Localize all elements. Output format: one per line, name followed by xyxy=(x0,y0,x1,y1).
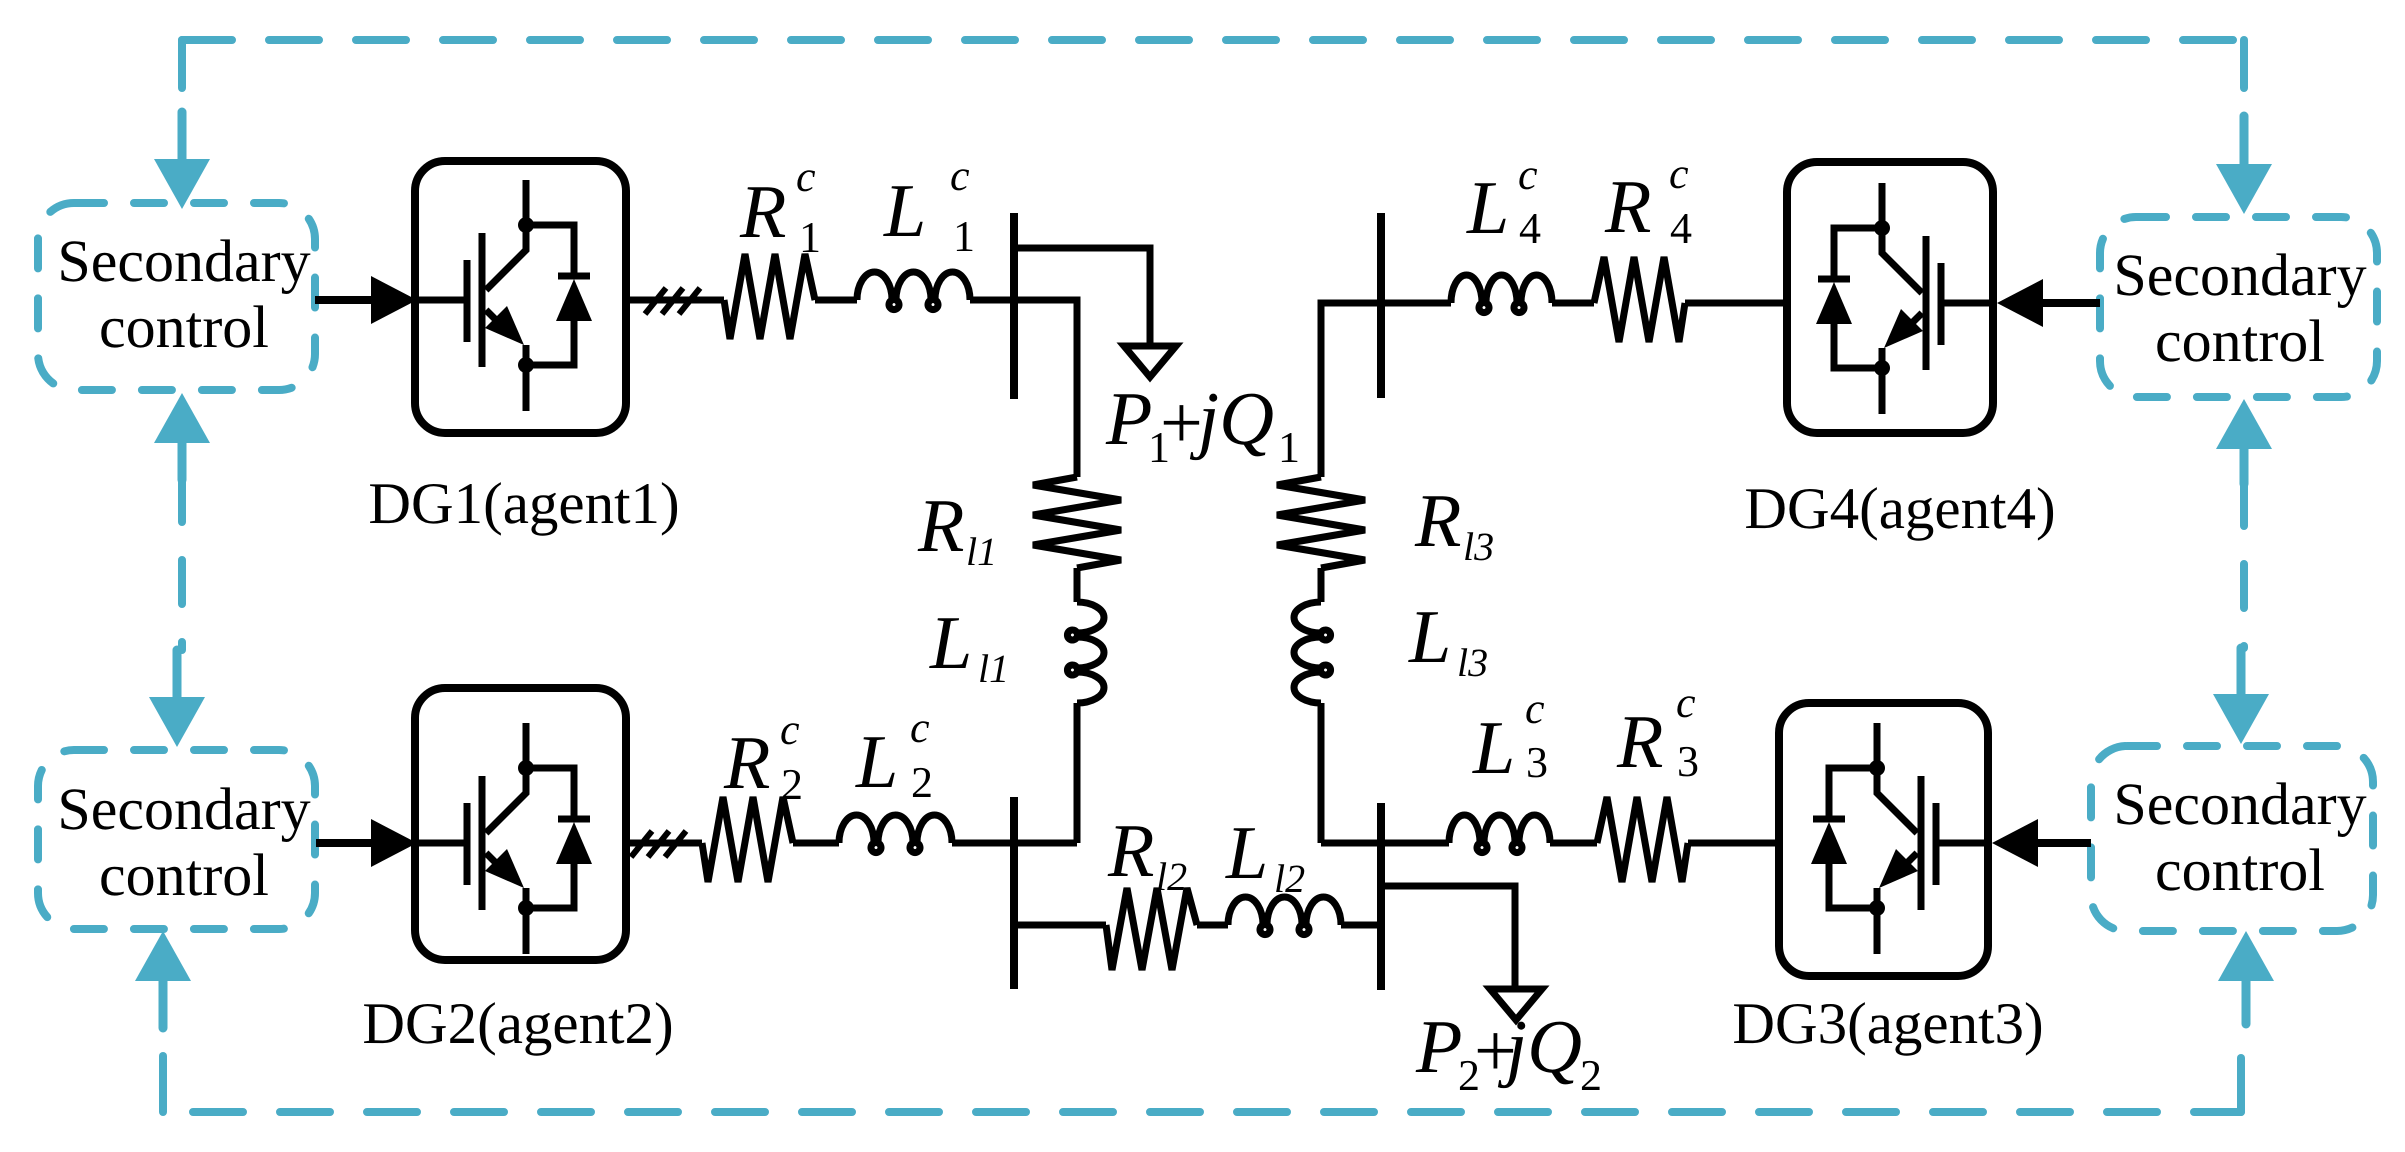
wire xyxy=(1550,840,1597,847)
secondary control box bottom-right xyxy=(2091,746,2373,931)
resistor R3c xyxy=(1597,797,1688,882)
svg-text:P: P xyxy=(1105,377,1152,461)
wire DG1 output xyxy=(626,297,724,304)
svg-text:control: control xyxy=(99,294,269,360)
svg-text:3: 3 xyxy=(1526,738,1548,787)
inverter U2 (DG2) xyxy=(415,723,592,954)
svg-text:jQ: jQ xyxy=(1497,1005,1582,1089)
svg-text:control: control xyxy=(99,842,269,908)
label R3c xyxy=(1616,678,1699,786)
svg-text:R: R xyxy=(1604,165,1651,249)
svg-text:c: c xyxy=(796,152,816,201)
svg-text:L: L xyxy=(1466,166,1509,250)
wire xyxy=(1552,300,1594,307)
svg-text:l2: l2 xyxy=(1274,856,1305,901)
communication network dashed border top xyxy=(182,36,2244,44)
wire xyxy=(815,297,857,304)
inductor Ll2 xyxy=(1228,897,1341,935)
svg-text:L: L xyxy=(1408,595,1451,679)
wire Ll2 to bus3 xyxy=(1341,922,1381,929)
svg-text:R: R xyxy=(917,484,964,568)
inverter U1 (DG1) xyxy=(415,180,592,411)
bus bar 2 xyxy=(1010,797,1018,989)
svg-text:Secondary: Secondary xyxy=(2113,771,2366,837)
wire xyxy=(793,840,839,847)
svg-text:R: R xyxy=(1414,479,1461,563)
svg-text:c: c xyxy=(1518,150,1538,199)
label Rl1 xyxy=(917,484,997,574)
arrow secondary control to DG2 xyxy=(316,839,373,847)
border corner bottom-left xyxy=(159,1056,167,1112)
inductor L3c xyxy=(1449,815,1550,853)
label Ll2 xyxy=(1225,811,1305,901)
svg-text:DG1(agent1): DG1(agent1) xyxy=(368,470,679,536)
svg-text:3: 3 xyxy=(1677,737,1699,786)
inverter U3 (DG3) xyxy=(1811,723,1988,954)
secondary control box top-left xyxy=(38,203,315,390)
svg-text:2: 2 xyxy=(1580,1051,1602,1100)
wire to bus1 and down to Rl1 xyxy=(970,300,1077,477)
svg-text:c: c xyxy=(1669,149,1689,198)
arrow secondary control to DG1 xyxy=(315,296,373,304)
inductor L1c xyxy=(857,272,970,310)
svg-text:L: L xyxy=(1225,811,1268,895)
border corner top-left xyxy=(178,40,186,88)
wire L2c to bus2 and through to Ll1 xyxy=(952,840,1077,847)
label R4c xyxy=(1604,149,1692,253)
blue arrow into bottom-right secondary control bottom (up) xyxy=(2218,931,2274,1024)
wire bus4 to Ll3 chain and to L4c xyxy=(1321,303,1451,477)
wire Ll1 to bus2 level xyxy=(1074,703,1081,843)
svg-text:1: 1 xyxy=(953,212,975,261)
svg-text:1: 1 xyxy=(799,213,821,262)
dashed link right middle xyxy=(2240,482,2248,648)
svg-text:c: c xyxy=(780,705,800,754)
blue arrow into bottom-right secondary control top (down) xyxy=(2213,648,2269,744)
svg-text:L: L xyxy=(929,601,972,685)
svg-text:R: R xyxy=(723,721,770,805)
svg-text:control: control xyxy=(2155,308,2325,374)
svg-text:jQ: jQ xyxy=(1189,377,1274,461)
blue arrow into bottom-left secondary control top (down) xyxy=(149,650,205,747)
inductor Ll3 xyxy=(1294,602,1331,703)
resistor Rl2 xyxy=(1106,888,1197,970)
resistor R4c xyxy=(1594,257,1685,342)
svg-text:l3: l3 xyxy=(1457,640,1488,685)
resistor R1c xyxy=(724,254,815,339)
resistor R2c xyxy=(702,797,793,882)
svg-text:1: 1 xyxy=(1278,423,1300,472)
label Ll3 xyxy=(1408,595,1488,685)
inverter U2 (DG2) block outline xyxy=(415,688,626,960)
inverter U4 (DG4) block outline xyxy=(1787,162,1993,433)
secondary control box bottom-left xyxy=(38,750,315,929)
wire DG2 output xyxy=(626,840,702,847)
wire xyxy=(1074,568,1081,602)
bus bar 1 xyxy=(1010,213,1018,399)
svg-text:Secondary: Secondary xyxy=(2113,242,2366,308)
inverter U1 (DG1) block outline xyxy=(415,161,626,433)
label L4c xyxy=(1466,150,1541,253)
blue arrow into bottom-left secondary control bottom (up) xyxy=(135,931,191,1028)
blue arrow into top-left secondary control bottom (up) xyxy=(154,393,210,480)
svg-text:R: R xyxy=(739,170,786,254)
inductor L2c xyxy=(839,815,952,853)
svg-text:DG3(agent3): DG3(agent3) xyxy=(1732,990,2043,1056)
wire R4c to DG4 xyxy=(1685,300,1787,307)
svg-text:+: + xyxy=(1160,381,1203,465)
blue arrow into top-left secondary control (down) xyxy=(154,112,210,209)
label L1c xyxy=(883,151,975,261)
wire R3c to DG3 xyxy=(1688,840,1779,847)
label Ll1 xyxy=(929,601,1009,691)
label L2c xyxy=(855,703,933,807)
load 2 stub wire xyxy=(1381,886,1515,989)
bus bar 3 xyxy=(1377,803,1385,990)
label P2+jQ2 xyxy=(1415,1005,1602,1100)
svg-text:DG4(agent4): DG4(agent4) xyxy=(1744,475,2055,541)
svg-text:c: c xyxy=(1676,678,1696,727)
svg-text:L: L xyxy=(883,169,926,253)
wire Ll3 to bus3 level xyxy=(1318,703,1325,843)
svg-text:2: 2 xyxy=(911,758,933,807)
svg-text:Secondary: Secondary xyxy=(57,776,310,842)
svg-text:c: c xyxy=(1525,684,1545,733)
load 2 arrow symbol xyxy=(1490,989,1542,1020)
arrow secondary control to DG4 xyxy=(2041,299,2100,307)
svg-text:l2: l2 xyxy=(1156,854,1187,899)
border corner bottom-right xyxy=(2237,1058,2245,1112)
svg-text:4: 4 xyxy=(1670,204,1692,253)
label R2c xyxy=(723,705,803,809)
label L3c xyxy=(1472,684,1548,790)
label Rl2 xyxy=(1107,809,1187,899)
svg-text:DG2(agent2): DG2(agent2) xyxy=(362,990,673,1056)
label R1c xyxy=(739,152,821,262)
arrow secondary control to DG3 xyxy=(2036,839,2091,847)
svg-text:2: 2 xyxy=(781,760,803,809)
svg-text:l1: l1 xyxy=(978,646,1009,691)
svg-text:L: L xyxy=(1472,706,1515,790)
svg-text:control: control xyxy=(2155,837,2325,903)
communication network dashed border bottom xyxy=(163,1108,2241,1116)
wire xyxy=(1318,568,1325,602)
svg-text:4: 4 xyxy=(1519,204,1541,253)
label P1+jQ1 xyxy=(1105,377,1300,472)
resistor Rl3 xyxy=(1277,477,1365,568)
svg-text:l1: l1 xyxy=(966,529,997,574)
border corner top-right xyxy=(2240,40,2248,88)
three-phase hash marks DG2 xyxy=(631,831,652,857)
secondary control box top-right xyxy=(2100,217,2377,397)
bus bar 4 xyxy=(1377,213,1385,398)
blue arrow into top-right secondary control bottom (up) xyxy=(2216,399,2272,484)
svg-text:Secondary: Secondary xyxy=(57,228,310,294)
label Rl3 xyxy=(1414,479,1494,569)
load 1 arrow symbol xyxy=(1124,346,1176,377)
svg-text:c: c xyxy=(910,703,930,752)
svg-text:L: L xyxy=(855,720,898,804)
inductor L4c xyxy=(1451,275,1552,313)
wire bus2 to Rl2 xyxy=(1014,922,1106,929)
svg-text:l3: l3 xyxy=(1463,524,1494,569)
dashed link left middle xyxy=(178,478,186,650)
blue arrow into top-right secondary control (down) xyxy=(2216,116,2272,214)
inverter U4 (DG4) xyxy=(1816,183,1993,414)
three-phase hash marks DG1 xyxy=(645,288,666,314)
inverter U3 (DG3) block outline xyxy=(1779,703,1988,976)
resistor Rl1 xyxy=(1033,477,1121,568)
svg-text:P: P xyxy=(1415,1005,1462,1089)
load 1 stub wire xyxy=(1014,248,1150,346)
wire Ll3 bottom through bus3 to L3c xyxy=(1321,840,1449,847)
inductor Ll1 xyxy=(1067,602,1104,703)
svg-text:R: R xyxy=(1616,700,1663,784)
wire xyxy=(1197,922,1228,929)
svg-text:R: R xyxy=(1107,809,1154,893)
svg-text:c: c xyxy=(950,151,970,200)
